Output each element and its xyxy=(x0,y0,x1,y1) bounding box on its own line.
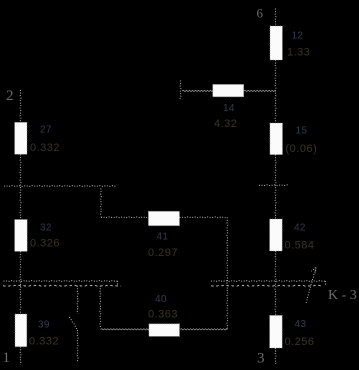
svg-text:1.33: 1.33 xyxy=(287,47,310,59)
svg-text:0.332: 0.332 xyxy=(30,142,60,154)
svg-text:0.584: 0.584 xyxy=(285,240,315,252)
svg-text:4.32: 4.32 xyxy=(214,118,237,130)
svg-text:1: 1 xyxy=(3,350,11,366)
svg-text:15: 15 xyxy=(296,126,308,137)
svg-text:12: 12 xyxy=(292,31,304,42)
svg-text:6: 6 xyxy=(257,6,264,21)
svg-text:K - 3: K - 3 xyxy=(328,288,357,303)
svg-text:40: 40 xyxy=(155,294,167,305)
svg-text:0.326: 0.326 xyxy=(30,238,60,250)
svg-text:2: 2 xyxy=(6,88,14,104)
svg-text:41: 41 xyxy=(157,232,169,243)
svg-text:42: 42 xyxy=(294,223,306,234)
svg-text:0.256: 0.256 xyxy=(285,336,315,348)
svg-text:27: 27 xyxy=(40,125,52,136)
svg-text:39: 39 xyxy=(38,320,50,331)
svg-text:0.363: 0.363 xyxy=(148,309,178,321)
svg-text:0.332: 0.332 xyxy=(29,336,59,348)
svg-text:3: 3 xyxy=(257,350,265,366)
svg-text:(0.06): (0.06) xyxy=(286,143,318,155)
svg-text:32: 32 xyxy=(40,223,52,234)
svg-text:14: 14 xyxy=(223,103,235,114)
svg-text:0.297: 0.297 xyxy=(148,247,178,259)
svg-text:43: 43 xyxy=(295,319,307,330)
